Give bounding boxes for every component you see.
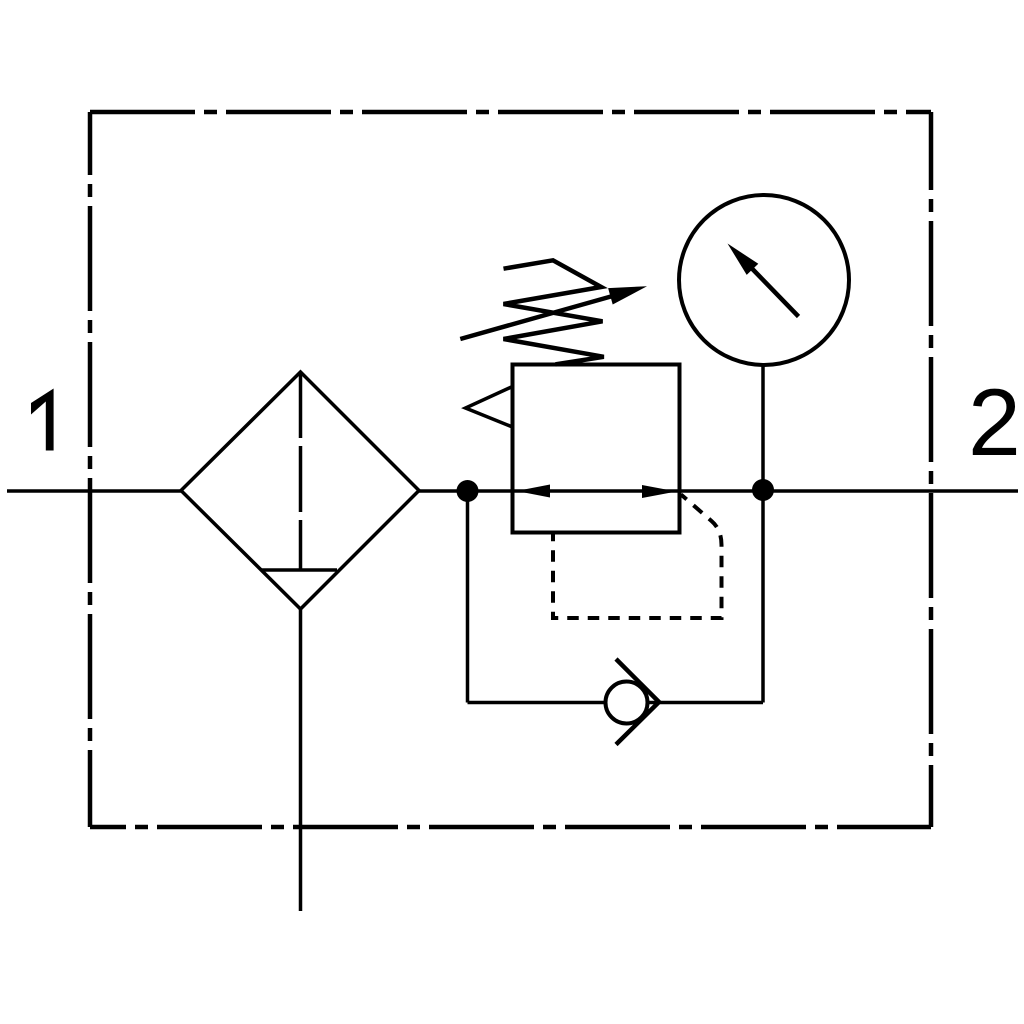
node N1 junction dot	[457, 480, 479, 502]
gauge connection stem	[761, 365, 765, 490]
filter element dashed centerline	[299, 372, 303, 570]
node N2 junction dot	[752, 479, 774, 501]
water separator baffle line	[261, 568, 337, 572]
bypass branch left vertical	[466, 491, 470, 703]
main flow line port1 to filter	[7, 489, 181, 493]
gauge needle arrowhead	[728, 244, 759, 275]
pressure gauge G1 dial circle	[679, 195, 849, 365]
regulator R1 body	[513, 365, 680, 533]
regulator flow arrowhead right	[642, 485, 677, 498]
port label 1	[31, 389, 54, 451]
enclosure border bottom (dash-dot)	[90, 825, 931, 830]
condensate drain line	[299, 609, 303, 911]
main flow line filter to port2	[419, 489, 1018, 493]
enclosure border top (dash-dot)	[90, 110, 931, 115]
svg-text:2: 2	[968, 370, 1021, 476]
check valve V1 ball circle	[606, 682, 648, 724]
enclosure border left (dash-dot)	[88, 112, 93, 827]
regulator spring zigzag	[504, 260, 604, 364]
regulator flow arrowhead left	[517, 485, 551, 498]
regulator adjustment arrowhead	[608, 286, 647, 304]
regulator adjustment arrow shaft	[460, 295, 618, 340]
filter F1 diamond body	[181, 372, 419, 609]
check valve seat	[616, 659, 659, 745]
enclosure border right (dash-dot)	[929, 112, 934, 827]
bypass branch bottom horizontal	[468, 701, 764, 705]
gauge needle shaft	[750, 267, 799, 317]
regulator relief vent triangle	[466, 387, 513, 428]
pilot control dashed line	[553, 495, 722, 619]
bypass branch right vertical	[761, 490, 765, 703]
